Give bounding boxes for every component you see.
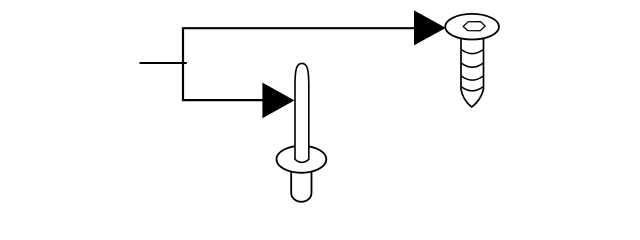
rivet: center pin with domed top (295, 63, 309, 162)
screw: thread arc 4 (461, 87, 484, 91)
screw: hex socket recess (463, 22, 485, 31)
screw: thread arc 1 (461, 49, 484, 53)
screw: countersunk flat head (top view ellipse) (445, 14, 499, 40)
arrowhead to rivet (262, 83, 294, 119)
screw: thread arc 2 (461, 63, 484, 67)
arrowhead to screw (414, 10, 446, 45)
rivet: lower expansion body (291, 168, 311, 202)
screw: shaft body with pointed tip (461, 32, 484, 107)
screw: thread arc 3 (461, 76, 484, 80)
wire: bracket with top and bottom branches (183, 28, 415, 100)
rivet: flange washer (277, 146, 327, 173)
wire: short leader line at left (140, 62, 187, 64)
